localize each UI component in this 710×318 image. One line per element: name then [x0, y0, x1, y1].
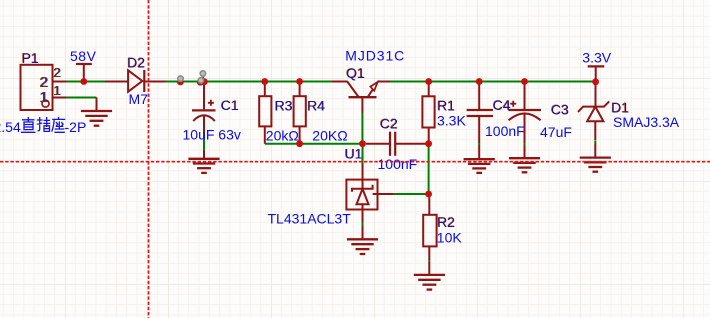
label D2 [127, 54, 146, 70]
junction node R1 top [425, 78, 432, 85]
label P1 [21, 50, 39, 66]
off-grid marker c [198, 78, 203, 83]
sheet border dashed horizontal line [0, 161, 710, 163]
off-grid marker b [200, 71, 205, 76]
capacitor C3 polarized [524, 82, 526, 110]
svg-text:C4: C4 [493, 97, 511, 113]
ground below D1 [580, 158, 611, 172]
wire P1 pin1 to ground [66, 97, 97, 99]
P1 pin 2 [53, 81, 67, 83]
svg-text:100nF: 100nF [378, 156, 418, 172]
junction node R4 bottom [296, 140, 303, 147]
svg-text:D2: D2 [127, 54, 145, 70]
off-grid marker a [178, 76, 183, 81]
svg-text:10K: 10K [437, 229, 463, 245]
ground below C4 [464, 159, 495, 173]
wire R2 to ground segment [428, 259, 430, 262]
svg-text:-2P: -2P [65, 119, 87, 135]
U1 ref pin [373, 193, 394, 195]
pin name 2 inside P1 [39, 74, 48, 91]
svg-text:10uF 63v: 10uF 63v [183, 127, 241, 143]
svg-text:C2: C2 [380, 116, 398, 132]
wire C2 node down to R2 node [428, 144, 430, 194]
wire C4 pin to ground segment [478, 142, 480, 146]
hanzi cha [37, 117, 50, 131]
connector P1 body [21, 65, 53, 110]
svg-text:MJD31C: MJD31C [345, 48, 405, 64]
junction node at x180 [177, 79, 184, 86]
wire U1 anode to ground segment [362, 222, 364, 227]
svg-text:M7: M7 [129, 91, 149, 107]
wire R3 bottom to U1 node (bottom rail) [265, 143, 363, 145]
svg-text:C3: C3 [551, 101, 569, 117]
ground below P1 [96, 98, 98, 112]
transistor Q1 [332, 81, 348, 83]
wire D1 anode to ground segment [594, 140, 596, 144]
P1 pin1 key circle [42, 100, 49, 107]
pin number 1 [53, 83, 61, 98]
junction node R4 top [296, 78, 303, 85]
svg-text:P1: P1 [22, 50, 39, 66]
svg-text:58V: 58V [70, 48, 97, 64]
U1 TL431 pin from node [362, 163, 364, 189]
junction node 3.3V D1 [592, 78, 599, 85]
zener diode D1 [595, 82, 597, 107]
junction node C4 top [476, 78, 483, 85]
label C1 [220, 97, 239, 113]
svg-text:C1: C1 [221, 97, 239, 113]
resistor R1 [428, 82, 430, 97]
sheet border dashed vertical line [148, 0, 150, 318]
wire P1 pin2 to 58V node to D2 [66, 81, 105, 83]
svg-text:TL431ACL3T: TL431ACL3T [268, 211, 352, 227]
capacitor C4 [478, 82, 480, 110]
capacitor C1 [203, 82, 205, 110]
svg-text:U1: U1 [345, 146, 363, 162]
wire C1 pin to ground [203, 133, 205, 151]
junction node 58V [80, 78, 87, 85]
ground below C1 [203, 151, 205, 159]
label D1 [611, 99, 630, 115]
svg-text:20kΩ: 20kΩ [266, 128, 299, 144]
svg-text:R2: R2 [437, 214, 455, 230]
wire U1 ref to R2 node [393, 193, 429, 195]
svg-text:2: 2 [53, 65, 60, 80]
label C2 [379, 115, 398, 131]
svg-text:R4: R4 [307, 98, 325, 114]
label R3 [274, 97, 293, 113]
resistor R3 [264, 82, 266, 97]
junction node U1 cathode [359, 140, 366, 147]
pin name 1 inside P1 [39, 89, 48, 106]
ground below R2 [414, 275, 445, 290]
P1 pin 1 [53, 97, 67, 99]
label U1 [344, 145, 363, 161]
ground below C3 [509, 158, 540, 172]
capacitor C2 [366, 143, 389, 145]
label R4 [307, 97, 326, 113]
wire C3 pin to ground segment [524, 142, 526, 146]
svg-text:20KΩ: 20KΩ [312, 128, 347, 144]
svg-text:D1: D1 [611, 99, 629, 115]
junction nodes at C1 [197, 79, 204, 86]
resistor R4 [299, 82, 301, 97]
diode D2 [105, 81, 128, 83]
svg-text:R1: R1 [437, 98, 455, 114]
svg-text:47uF: 47uF [540, 124, 572, 140]
junction node C3 top [521, 78, 528, 85]
svg-text:1: 1 [39, 89, 47, 106]
ground below U1 [347, 239, 378, 254]
label Q1 [346, 65, 365, 81]
label C3 [550, 101, 569, 117]
power symbol 58V [76, 63, 92, 65]
wire Q1 emitter to R1 C4 C3 3.3V rail [390, 81, 595, 83]
svg-text:SMAJ3.3A: SMAJ3.3A [613, 114, 680, 130]
U1 zener triangle [357, 189, 369, 204]
U1 anode stem [362, 204, 364, 222]
wire D2 cathode to C1 node [165, 81, 198, 83]
U1 TL431 box [346, 180, 377, 210]
wire C1 node to R3 node to R4 node to Q1 collector [207, 81, 333, 83]
hanzi zuo [52, 117, 65, 132]
wire node down to U1 cathode pin [362, 144, 364, 164]
svg-text:R3: R3 [275, 98, 293, 114]
pin number 2 [53, 65, 61, 80]
resistor R2 [428, 194, 430, 215]
junction node R3 [261, 78, 268, 85]
wire stub above C1 node [202, 75, 204, 82]
svg-text:100nF: 100nF [485, 123, 525, 139]
hanzi zhi [21, 117, 36, 132]
label R1 [437, 97, 456, 113]
junction node C2 right [425, 140, 432, 147]
svg-text:1: 1 [53, 83, 60, 98]
svg-text:Q1: Q1 [346, 65, 365, 81]
svg-text:3.3K: 3.3K [437, 113, 466, 129]
svg-text:3.3V: 3.3V [582, 50, 611, 66]
wire Q1 base down to node [361, 112, 363, 143]
power symbol 3.3V [588, 65, 605, 67]
junction node U1 ref R2 [425, 191, 432, 198]
U1 zener bar [352, 185, 373, 192]
label R2 [437, 214, 456, 230]
svg-text:2.54: 2.54 [0, 119, 21, 135]
label C4 [492, 97, 511, 113]
